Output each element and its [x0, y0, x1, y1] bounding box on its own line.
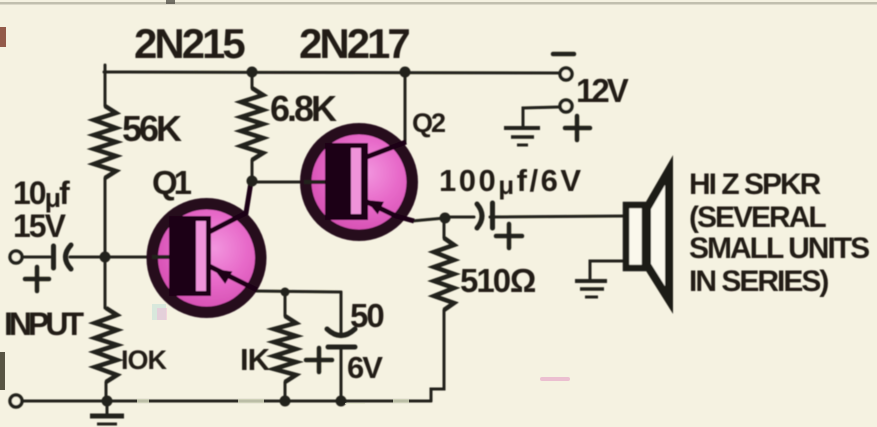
svg-text:6V: 6V: [347, 350, 383, 385]
svg-text:IN SERIES): IN SERIES): [689, 265, 828, 298]
svg-text:IK: IK: [240, 342, 271, 377]
svg-text:Q1: Q1: [152, 164, 192, 201]
svg-text:HI Z SPKR: HI Z SPKR: [689, 168, 822, 201]
svg-text:50: 50: [350, 297, 383, 334]
svg-text:(SEVERAL: (SEVERAL: [689, 201, 826, 234]
svg-text:15V: 15V: [13, 208, 67, 244]
svg-text:2N217: 2N217: [299, 20, 409, 67]
svg-text:2N215: 2N215: [134, 20, 245, 67]
svg-text:INPUT: INPUT: [4, 306, 84, 342]
svg-text:Q2: Q2: [412, 108, 445, 138]
svg-text:56K: 56K: [122, 108, 182, 149]
svg-text:6.8K: 6.8K: [270, 88, 337, 129]
svg-text:12V: 12V: [576, 72, 629, 109]
svg-text:510 Ω: 510 Ω: [460, 262, 536, 299]
svg-text:SMALL UNITS: SMALL UNITS: [689, 232, 869, 265]
svg-text:IOK: IOK: [121, 345, 168, 375]
